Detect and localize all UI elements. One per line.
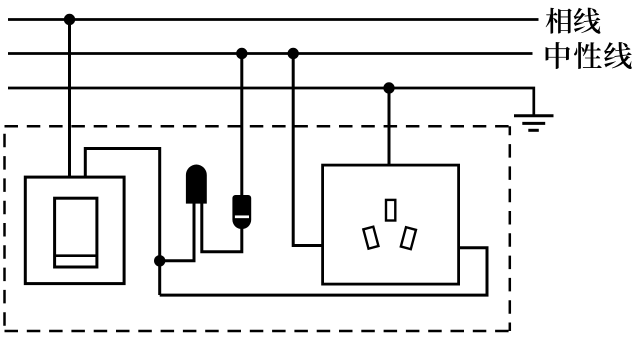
wire neutral bus L2 — [8, 52, 533, 55]
ground — [514, 116, 554, 131]
node junction dot D5 switch output — [154, 255, 165, 266]
wire socket-right-return — [160, 248, 487, 295]
wire live bus L1 — [8, 18, 539, 21]
switch S1 outer body — [25, 177, 124, 284]
wire live-to-switch W1 — [68, 20, 71, 178]
label 中性线 (neutral wire) — [546, 42, 632, 69]
switch S1 rocker divider — [55, 254, 97, 257]
socket earth slot (top) — [386, 200, 395, 221]
wire neutral-to-socket-left W4 — [293, 54, 322, 246]
node junction dot D4 on earth bus — [383, 82, 394, 93]
lamp bulb E1 (black capsule) — [186, 165, 207, 204]
label 相线 (live wire) — [546, 8, 601, 34]
wire switch-output W2 — [85, 149, 159, 296]
node junction dot D2 on neutral bus — [236, 48, 247, 59]
dashed enclosure box — [5, 126, 510, 331]
socket left slot — [363, 227, 378, 249]
wire earth bus L3 — [8, 88, 534, 116]
switch S1 rocker — [55, 198, 97, 267]
wire bulb-right-leg-to-lamp — [202, 203, 242, 252]
socket right slot — [401, 227, 416, 249]
socket X1 body — [323, 165, 459, 284]
wire neutral-to-lamp W3 — [240, 54, 243, 197]
lamp holder E2 (black body with white band) — [232, 195, 251, 229]
wire earth-to-socket-top W5 — [388, 88, 391, 166]
node junction dot D1 on live bus — [64, 14, 75, 25]
wire dot-to-bulb-left-leg — [160, 203, 194, 261]
node junction dot D3 on neutral bus — [288, 48, 299, 59]
lamp holder white band — [235, 215, 249, 218]
